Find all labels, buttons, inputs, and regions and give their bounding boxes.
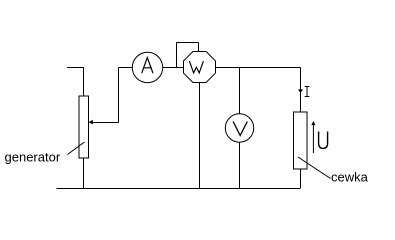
wire bottom bus [57, 188, 301, 190]
voltage arrowhead pointing up [311, 121, 315, 125]
wire wattmeter right to coil branch [216, 67, 301, 69]
wire wattmeter voltage-coil down to top of W [198, 43, 200, 52]
current arrowhead pointing down [298, 89, 303, 93]
wire top-left stub vertical down to generator top [83, 67, 85, 96]
voltmeter letter V [233, 122, 247, 136]
wire voltmeter bottom lead [239, 142, 241, 188]
voltage label "U" [319, 132, 328, 149]
wire voltmeter top lead [239, 68, 241, 115]
wattmeter letter W [189, 61, 203, 73]
label pointer line to generator [68, 142, 85, 155]
current label "I" (serif glyph) [305, 87, 310, 97]
wire to ammeter left [119, 67, 133, 69]
wire wiper arrow horizontal segment [90, 122, 119, 124]
wire right branch vertical to coil [300, 68, 302, 113]
wire generator bottom lead [83, 158, 85, 188]
wiper arrowhead pointing left into generator [89, 120, 93, 125]
wire ammeter to wattmeter [163, 67, 184, 69]
wire coil bottom lead [300, 169, 302, 188]
label pointer line to cewka [298, 157, 331, 179]
wire wattmeter voltage-coil top horizontal [177, 42, 199, 44]
svg-text:cewka: cewka [331, 170, 369, 185]
generator (potentiometer) body rectangle [79, 96, 89, 158]
ammeter letter A [142, 58, 153, 74]
wire wattmeter bottom lead [199, 83, 201, 189]
wattmeter W octagon body [184, 52, 216, 83]
svg-text:generator: generator [5, 150, 61, 165]
ammeter A circle [132, 52, 162, 82]
coil "cewka" body rectangle [294, 112, 307, 169]
voltmeter V circle [225, 114, 253, 142]
wire wattmeter voltage-coil junction up [176, 43, 178, 68]
wire top-left stub horizontal [67, 67, 84, 69]
wire wiper vertical up [118, 68, 120, 123]
voltage arrow U vertical line [312, 124, 314, 153]
